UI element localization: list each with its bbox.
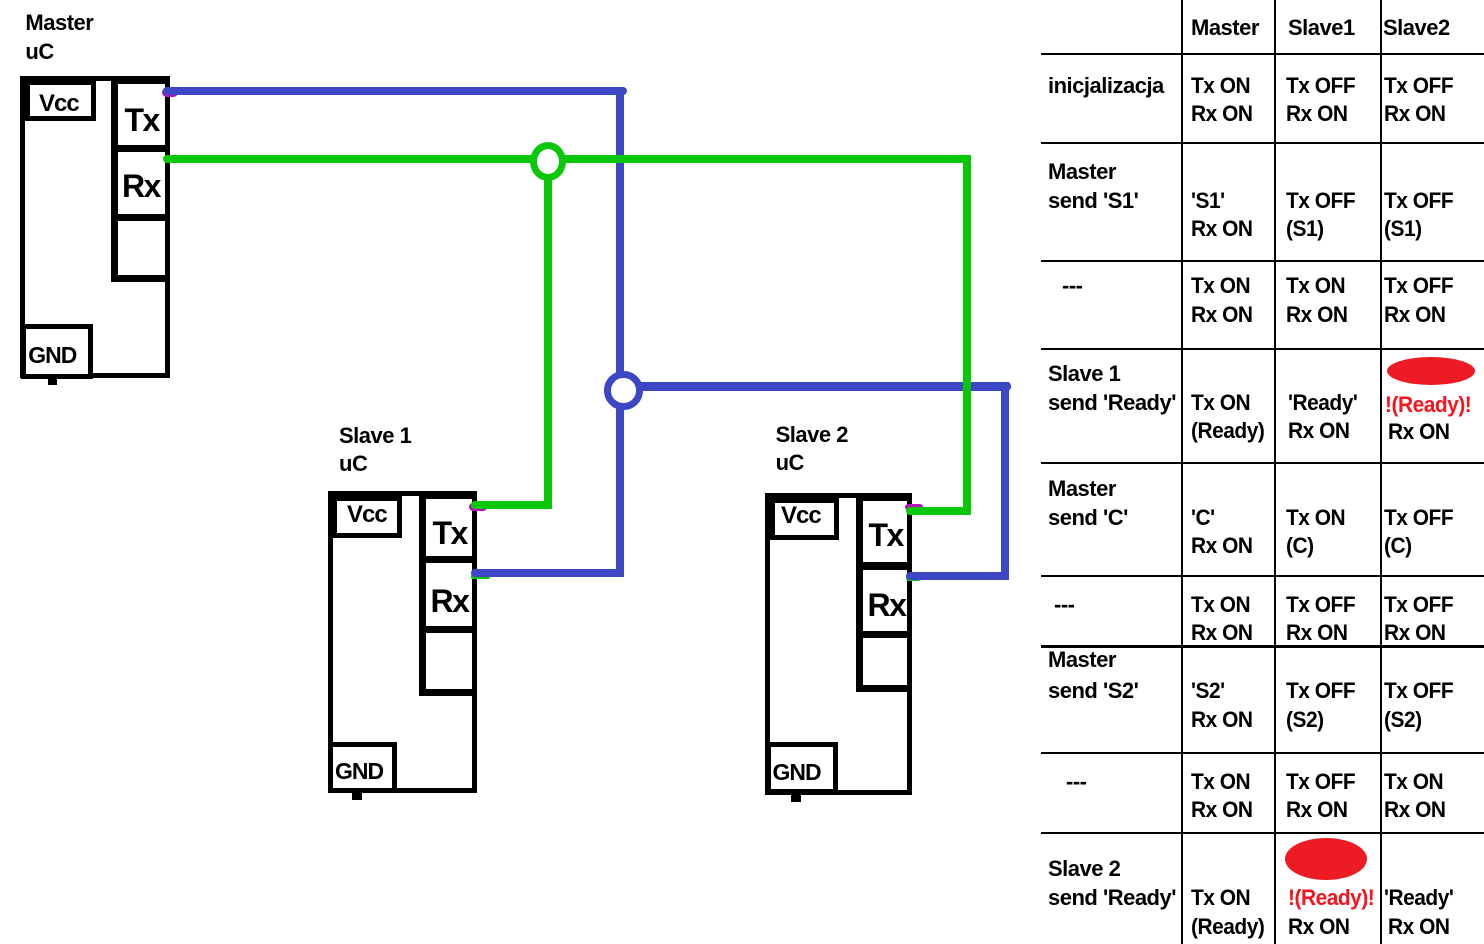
Slave 2 uC Rx/spare pin divider (856, 631, 912, 638)
Slave 2 uC pin-strip left line (856, 493, 863, 692)
state table row --- (after S2) (0, 0, 1484, 1)
wire green Rx-net horizontal into Slave 1 Tx pin (471, 501, 552, 509)
wire green Rx-net vertical drop to Slave 2 (963, 155, 971, 516)
Master uC Vcc pin box (25, 80, 96, 121)
pin label Vcc (Slave 2) (781, 504, 821, 528)
pin label Tx (Slave 2) (869, 519, 903, 551)
pin label GND (Slave 1) (335, 760, 383, 783)
pin label GND (Master) (28, 344, 76, 367)
Slave 2 uC Tx box top edge overlap (856, 497, 912, 501)
state table column line 3 (1380, 0, 1382, 944)
Master uC GND stub pin (48, 377, 57, 385)
state table row line 2 (1041, 142, 1484, 144)
solder dot green at Slave 1 Rx pin (471, 574, 490, 579)
Slave 1 uC GND pin box (328, 742, 397, 793)
pin label Rx (Slave 1) (431, 585, 469, 617)
pin label Vcc (Master) (39, 92, 79, 116)
state table column line 2 (1274, 0, 1276, 944)
state table row line 1 (1041, 53, 1484, 55)
wire green Rx-net horizontal into Slave 2 Tx pin (906, 507, 971, 515)
wire blue Tx-net branch horizontal into Slave 2 Rx pin (906, 572, 1009, 580)
Slave 1 uC Tx/Rx pin divider (419, 556, 477, 563)
junction node blue on Tx-net (604, 371, 643, 410)
Slave 2 uC GND pin box (766, 742, 839, 794)
pin label Vcc (Slave 1) (347, 503, 387, 527)
pin label Tx (Slave 1) (433, 517, 467, 549)
state table row line 8 (1041, 752, 1484, 754)
pin label Rx (Slave 2) (868, 589, 906, 621)
Slave 1 uC Vcc pin box (332, 496, 402, 539)
Slave 1 uC Tx box top edge overlap (419, 495, 477, 499)
error text !(Ready)! and Rx ON (Slave2 column, Slave 1 send Ready row) (0, 0, 1484, 1)
Slave 2 uC spare pin bottom line (856, 685, 912, 692)
state table column line 1 (1181, 0, 1183, 944)
wire green Rx-net horizontal from Master Rx pin (163, 155, 970, 163)
state table row Master send 'S1' (0, 0, 1484, 1)
state table row Slave 1 send 'Ready' (0, 0, 1484, 1)
Slave 2 uC body outline (765, 493, 912, 795)
state table row Slave 2 send 'Ready' (0, 0, 1484, 1)
wire blue Tx-net branch horizontal from junction to right (620, 382, 1011, 391)
error ellipse red (Slave2 column, Slave 1 send Ready row) (1387, 357, 1474, 385)
Slave 2 uC GND stub pin (791, 794, 801, 802)
state table row line 6 (1041, 575, 1484, 578)
error ellipse red (Slave1 column, Slave 2 send Ready row) (1285, 838, 1368, 880)
state table row line 7 (1041, 645, 1484, 648)
wire green Rx-net vertical drop to Slave 1 (544, 160, 552, 509)
Slave 1 uC GND stub pin (352, 792, 362, 800)
wire blue Tx-net horizontal from Master Tx pin (163, 87, 627, 95)
wire blue Tx-net branch vertical down (1001, 382, 1009, 580)
wire blue Tx-net vertical trunk (616, 87, 624, 577)
solder dot green at Slave 2 Rx pin (906, 574, 921, 581)
Master uC Tx/Rx pin divider (111, 145, 169, 152)
wire blue Tx-net horizontal into Slave 1 Rx pin (471, 569, 625, 577)
Master uC GND pin box (21, 324, 93, 379)
solder dot purple at Slave 1 Tx pin (469, 503, 487, 511)
state table row --- (after S1) (0, 0, 1484, 1)
label Slave 1 uC (339, 422, 411, 480)
pin label Tx (Master) (125, 104, 159, 136)
Slave 2 uC Tx/Rx pin divider (856, 562, 912, 570)
state table row inicjalizacja (0, 0, 1484, 1)
Master uC spare pin bottom line (111, 275, 169, 282)
Master uC body outline (20, 76, 170, 378)
Master uC pin-strip left line (111, 76, 118, 282)
state table row Master send 'S2' (0, 0, 1484, 1)
Slave 1 uC body outline (328, 491, 478, 793)
junction node green on Rx-net (530, 142, 566, 181)
Master uC Tx box top edge overlap (111, 80, 169, 84)
state table row --- (after C) (0, 0, 1484, 1)
Slave 1 uC spare pin bottom line (419, 689, 477, 696)
Slave 1 uC pin-strip left line (419, 491, 426, 696)
state table row line 9 (1041, 832, 1484, 834)
label Slave 2 uC (776, 421, 848, 479)
state table row line 3 (1041, 260, 1484, 262)
state table row line 4 (1041, 348, 1484, 350)
state table header row: Master / Slave1 / Slave2 (0, 0, 1484, 1)
state table row Master send 'C' (0, 0, 1484, 1)
Master uC Rx/spare pin divider (111, 214, 169, 221)
error text !(Ready)! and Rx ON (Slave1 column, Slave 2 send Ready row) (0, 0, 1484, 1)
pin label Rx (Master) (122, 170, 160, 202)
Slave 2 uC Vcc pin box (770, 498, 839, 541)
state table row line 5 (1041, 462, 1484, 465)
label Master uC (25, 9, 93, 67)
Slave 1 uC Rx/spare pin divider (419, 626, 477, 633)
solder dot purple at Slave 2 Tx pin (905, 504, 923, 510)
pin label GND (Slave 2) (773, 761, 821, 784)
solder dot purple at Master Tx pin (162, 88, 178, 97)
